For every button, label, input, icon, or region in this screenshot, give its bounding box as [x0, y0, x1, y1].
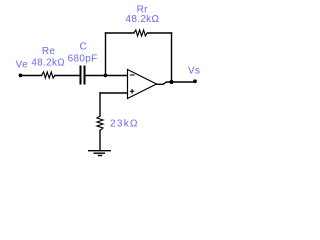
svg-text:Ve: Ve [16, 59, 28, 70]
svg-text:48.2kΩ: 48.2kΩ [126, 14, 160, 25]
svg-text:680pF: 680pF [68, 53, 98, 64]
svg-text:C: C [80, 42, 88, 53]
svg-text:Re: Re [42, 46, 56, 57]
svg-text:48.2kΩ: 48.2kΩ [31, 57, 65, 68]
svg-text:Vs: Vs [188, 66, 200, 77]
svg-text:23kΩ: 23kΩ [110, 119, 139, 130]
